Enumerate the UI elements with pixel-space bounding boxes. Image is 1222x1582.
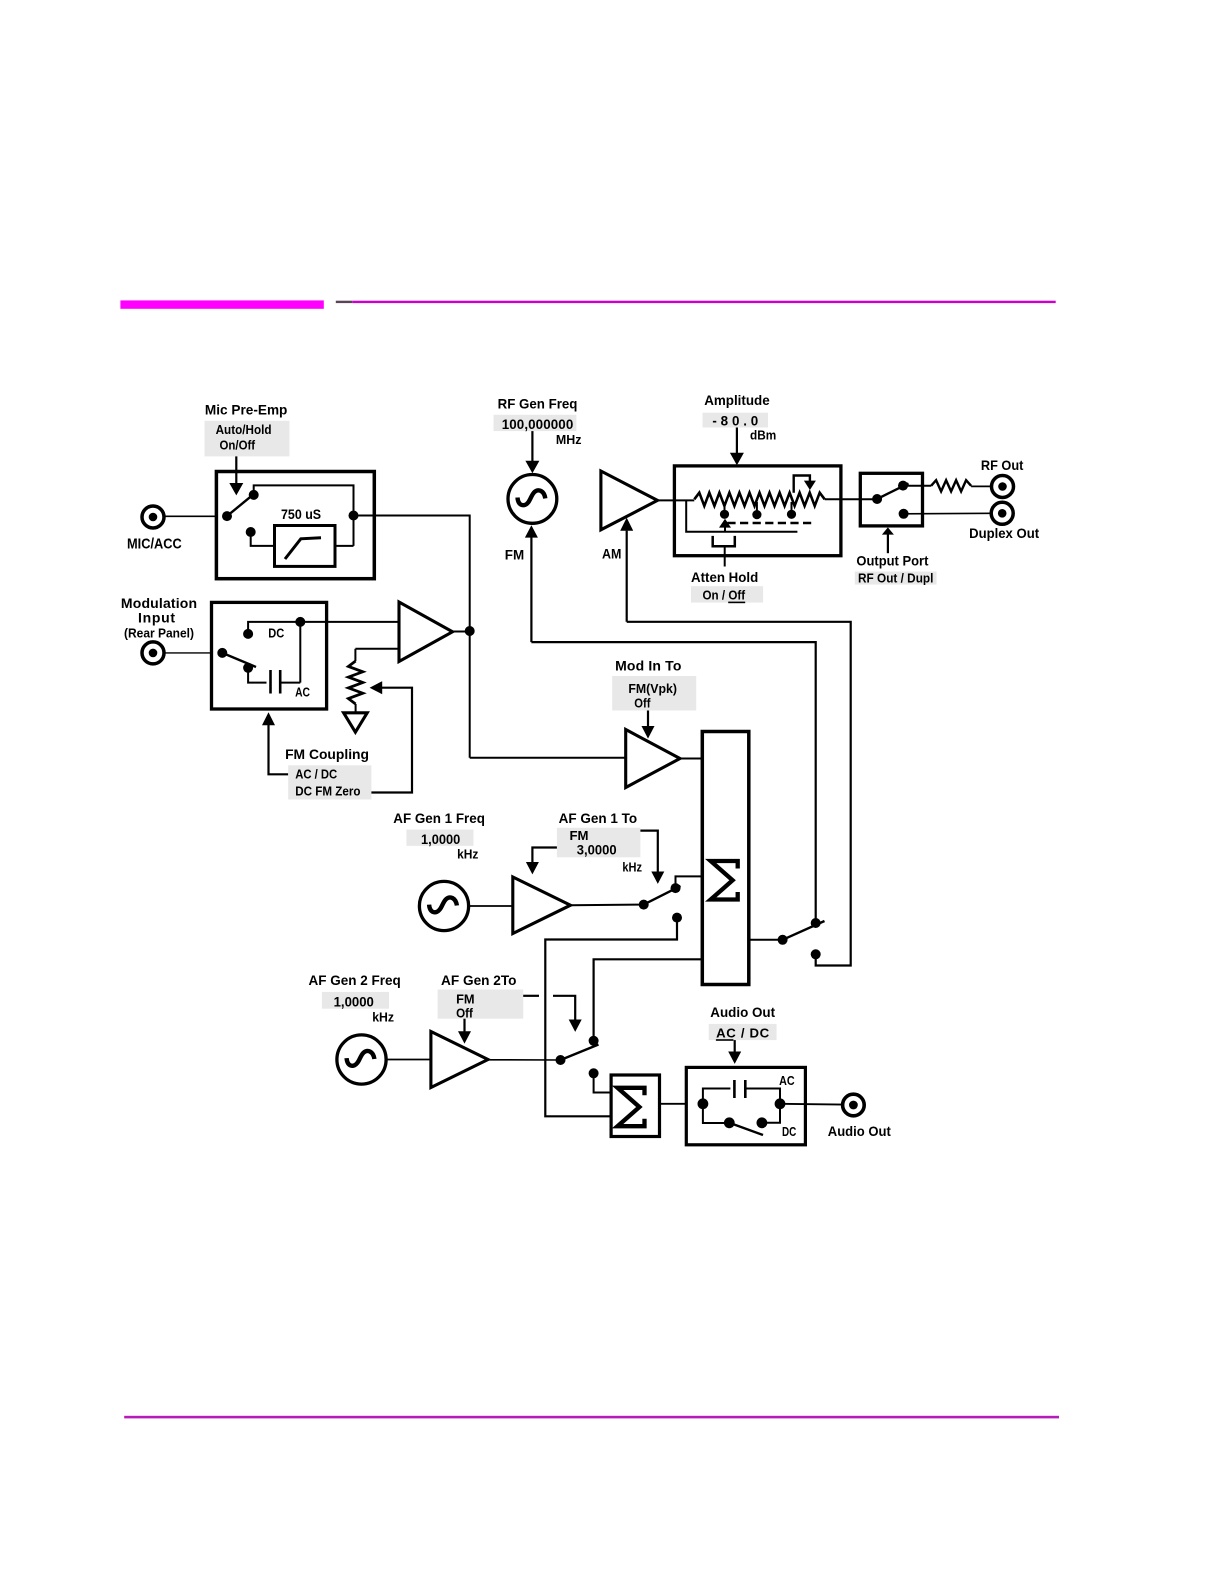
svg-text:FM: FM [505,546,524,562]
switch S3 arm [877,483,908,499]
svg-text:Audio Out: Audio Out [710,1004,775,1020]
control arrow from Auto/Hold to switch S1 [235,456,237,483]
wire DC contact to output node [762,1104,780,1123]
svg-text:100,000000: 100,000000 [502,417,574,432]
wire U1 output to junction [453,631,470,633]
svg-text:Mod In To: Mod In To [615,657,681,673]
switch S4 lower contact [672,913,682,923]
attenuator input branch wire [686,500,797,531]
switch S7 common pole [724,1117,735,1128]
switch S3 lower contact Duplex [899,509,909,519]
switch S5 arm [783,921,825,940]
switch S7 arm (open) [729,1123,763,1135]
switch S6 common pole [556,1055,566,1065]
attenuator series resistor ladder [694,493,824,506]
switch S6 arm [561,1045,599,1061]
control arrow Audio Out to coupling box [734,1040,736,1052]
switch S5 common pole [778,935,788,945]
svg-text:DC: DC [268,626,284,641]
svg-text:On / Off: On / Off [703,588,746,603]
control arrow FM to amp U4 [532,848,557,863]
svg-text:(Rear Panel): (Rear Panel) [124,626,194,641]
svg-text:Auto/Hold: Auto/Hold [216,422,272,437]
node coupling output junction [295,617,305,627]
softkey field AC / DC DC FM Zero [288,765,371,799]
control arrow Output Port to switch box [882,527,894,534]
svg-text:3,0000: 3,0000 [577,843,617,858]
wire coupling output to FM amp [300,621,399,623]
page header thin rule dark lead-in segment [336,301,352,303]
wire S4 lower contact to summer 2 [545,918,677,1117]
svg-text:750 uS: 750 uS [281,507,321,522]
attenuator step dashed line [727,522,812,524]
wire filter F1 output to node [335,545,354,547]
page header thick magenta bar [120,300,323,308]
block audio coupling box [686,1067,805,1144]
value field 100,000000 [494,415,577,431]
svg-text:Amplitude: Amplitude [704,392,770,408]
control arrow Amplitude to attenuator [736,428,738,454]
svg-text:1,0000: 1,0000 [334,994,374,1009]
block FM coupling box [212,602,327,709]
svg-text:AC: AC [295,685,310,700]
svg-text:RF Out / Dupl: RF Out / Dupl [858,572,933,586]
svg-text:AF Gen 2 Freq: AF Gen 2 Freq [309,972,401,988]
oscillator G1 RF generator [508,475,557,524]
svg-text:dBm: dBm [750,427,776,442]
svg-text:RF Out: RF Out [981,457,1024,473]
control arrow RF Gen Freq to oscillator G1 [531,431,533,461]
svg-text:Input: Input [138,609,175,625]
wire pre-emp output to FM amp input [354,516,470,758]
connector J3 RF Out [992,476,1014,498]
wire AM feed line [627,622,851,966]
softkey field FM 3,0000 [557,828,641,858]
wire summer 2 output to audio coupling [658,1103,686,1105]
svg-text:AC / DC: AC / DC [295,766,337,781]
switch S1 common pole [222,511,232,521]
filter F1 pre-emphasis box [275,526,336,567]
switch S6 lower contact to summer 2 [589,1068,599,1078]
svg-text:Duplex Out: Duplex Out [969,525,1039,541]
summer block sigma 1 [702,732,749,985]
wire G2 to amp U4 [469,905,513,907]
wire to Audio Out connector [780,1103,844,1106]
switch S1 upper contact (bypass) [249,490,259,500]
atten hold bracket [713,536,735,546]
wire C2 to output node [745,1089,780,1104]
svg-text:DC FM Zero: DC FM Zero [295,783,360,798]
wire summer 1 output [749,939,783,941]
wire DC branch lower path [703,1104,725,1123]
softkey field FM Off (AF Gen 2) [438,990,524,1019]
control arrow AF Gen 2 To switch S6 [523,995,539,997]
wire MIC/ACC to pre-emphasis block [163,515,217,517]
oscillator G2 AF Gen 1 [419,881,468,930]
svg-text:FM: FM [570,828,589,843]
FM deviation arrow into G1 [525,525,538,537]
wire U2 output to attenuator [658,499,695,501]
switch S4 arm [644,886,681,905]
switch S7 DC contact [757,1117,768,1128]
wire bypass path [254,485,354,546]
svg-text:AF Gen 2To: AF Gen 2To [441,972,517,988]
wire R1 top to FM amp input [355,648,399,650]
node audio coupling output [775,1098,786,1109]
softkey field FM(Vpk) Off [612,676,696,711]
op-amp U4 AF Gen 1 amp [513,877,571,934]
wire lower contact to filter F1 [251,532,275,546]
wire R2 to RF Out connector [971,485,993,487]
wire G3 to amp U5 [386,1059,431,1061]
svg-text:RF Gen Freq: RF Gen Freq [498,396,578,412]
switch S3 common pole [872,494,882,504]
connector J1 MIC/ACC [142,506,164,528]
svg-text:kHz: kHz [372,1009,394,1024]
filter F1 response curve [285,538,321,559]
control arrow AF Gen 1 To switch S4 [640,831,657,872]
svg-text:Atten Hold: Atten Hold [691,569,758,585]
svg-text:AC: AC [779,1073,795,1088]
connector J4 Duplex Out [991,502,1013,524]
switch S2 upper contact DC [243,629,253,639]
value field 1,0000 (AF Gen 2) [322,992,389,1009]
svg-text:MIC/ACC: MIC/ACC [127,535,182,552]
node FM mod junction [465,626,475,636]
control arrow Mod In To amp U3 [647,711,649,727]
resistor R1 DC FM zero adjust [354,649,356,661]
resistor R2 RF Out series [931,480,971,491]
wire FM feed line [531,642,815,923]
svg-text:1,0000: 1,0000 [421,832,460,847]
wire AC contact to capacitor C1 [248,668,266,683]
AM feed arrow into U2 [620,518,633,531]
svg-text:AC / DC: AC / DC [716,1025,770,1040]
svg-text:Off: Off [634,696,651,711]
block Mic Pre-Emp box [216,472,374,579]
wire junction down to Mod In amp [470,757,626,759]
op-amp U5 AF Gen 2 amp [431,1032,488,1088]
switch S2 common pole [217,648,227,658]
svg-text:Mic Pre-Emp: Mic Pre-Emp [205,402,288,418]
analog ground symbol [344,713,368,732]
switch S4 common pole [639,900,649,910]
block output port switch box [860,473,922,526]
svg-text:FM Coupling: FM Coupling [285,746,369,762]
switch S5 lower contact AM feed [811,949,821,959]
connector J2 Modulation Input [142,642,164,664]
op-amp U1 FM input amp [399,602,453,662]
wire AC path up to DC node [299,622,301,683]
wire DC path [248,622,300,634]
svg-text:FM(Vpk): FM(Vpk) [628,681,677,696]
wire DC FM Zero to pot R1 wiper [371,688,412,793]
svg-text:kHz: kHz [622,859,642,874]
op-amp U3 Mod In amp [626,730,680,788]
softkey field AC / DC (AC selected) [709,1024,777,1040]
node mic path output junction [349,511,359,521]
connector J5 Audio Out [843,1094,865,1116]
switch S1 lower contact (750 uS path) [246,527,256,537]
svg-text:MHz: MHz [556,432,582,447]
oscillator G3 AF Gen 2 [337,1035,386,1084]
wire S6 lower contact to summer 2 [594,1073,611,1092]
softkey field On / Off (Off selected) [691,586,763,602]
svg-text:AF Gen 1 To: AF Gen 1 To [559,810,638,826]
switch S2 lower contact AC [243,663,253,673]
block attenuator box [674,466,841,556]
op-amp U2 AM modulator amp [601,471,658,530]
wire lower contact to Duplex Out connector [904,512,993,515]
wire bracket to Atten Hold label [724,546,726,566]
page header thin magenta rule [352,301,1055,303]
attenuator tap 1 [724,502,726,511]
softkey field Auto/Hold On/Off [205,421,290,457]
wire AC branch upper path [703,1089,731,1104]
svg-text:Off: Off [456,1006,473,1021]
wiper arrowhead at R1 [370,681,383,694]
svg-text:DC: DC [782,1124,796,1139]
page footer magenta rule [124,1416,1059,1419]
atten hold arrow up at tap 1 [719,519,731,528]
attenuator tap 2 [756,502,758,511]
summer block sigma 2 [611,1075,659,1137]
svg-text:FM: FM [456,991,475,1006]
wire U5 output to switch S6 [488,1059,561,1061]
control arrow FM Coupling to coupling box [262,712,275,725]
value field 1,0000 (AF Gen 1) [406,830,473,846]
svg-text:AM: AM [602,545,621,561]
capacitor C1 [269,670,272,694]
node audio coupling input [698,1098,709,1109]
svg-text:Output Port: Output Port [856,552,928,568]
wire Modulation Input to coupling block [163,652,212,654]
attenuator wiper arrow [794,476,810,493]
svg-text:On/Off: On/Off [220,438,256,453]
value field -80.0 [703,413,769,428]
wire attenuator output to port switch [825,498,877,500]
switch S2 arm [222,653,256,667]
wire U3 output to summer [680,758,702,760]
softkey field RF Out / Dupl [855,572,937,585]
control arrow Off to amp U5 [463,1019,465,1032]
wire U4 output to switch S4 [571,904,644,907]
wire S4 upper contact to summer 1 [676,876,703,888]
switch S4 upper contact FM [671,883,681,893]
switch S3 upper contact RF Out [898,481,908,491]
switch S1 arm [227,492,257,516]
attenuator tap 3 [791,502,793,511]
capacitor C2 audio AC coupling [733,1080,736,1098]
svg-text:AF Gen 1 Freq: AF Gen 1 Freq [393,810,485,826]
svg-text:kHz: kHz [457,846,478,861]
switch S5 upper contact FM feed [811,918,821,928]
switch S6 upper contact to summer 1 [589,1036,599,1046]
wire upper contact to series resistor [903,485,931,487]
svg-text:Audio Out: Audio Out [828,1123,891,1139]
wire S6 upper contact to summer 1 [594,959,703,1041]
